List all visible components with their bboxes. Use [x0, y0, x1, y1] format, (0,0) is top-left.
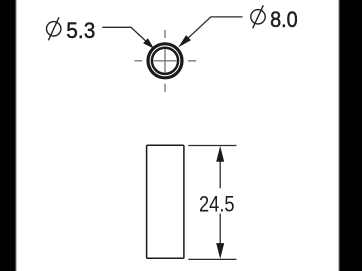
dimension line upper segment [219, 160, 221, 188]
svg-text:24.5: 24.5 [199, 192, 235, 217]
top extension line of 24.5 dimension [188, 145, 236, 147]
outer circle (OD 8.0) of top view [148, 44, 182, 78]
top arrowhead of dimension [216, 146, 224, 162]
arrowhead of 5.3 leader [143, 38, 154, 49]
diameter symbol of 5.3 label [47, 17, 61, 40]
left black pillarbox bar [0, 0, 16, 271]
svg-text:5.3: 5.3 [66, 18, 95, 43]
leader line for 5.3 label [102, 27, 151, 46]
inner circle (ID 5.3) of top view [152, 48, 178, 74]
arrowhead of 8.0 leader [178, 35, 191, 47]
diameter symbol of 8.0 label [251, 5, 265, 28]
dimension line lower segment [219, 214, 221, 246]
bottom extension line of 24.5 dimension [188, 258, 236, 260]
leader line for 8.0 label [181, 17, 243, 45]
side view rectangle of spacer [147, 145, 184, 258]
right black pillarbox bar [339, 0, 362, 271]
svg-text:8.0: 8.0 [270, 7, 298, 32]
center mark crosshair (gray) of top view [135, 30, 197, 92]
bottom arrowhead of dimension [216, 243, 224, 259]
